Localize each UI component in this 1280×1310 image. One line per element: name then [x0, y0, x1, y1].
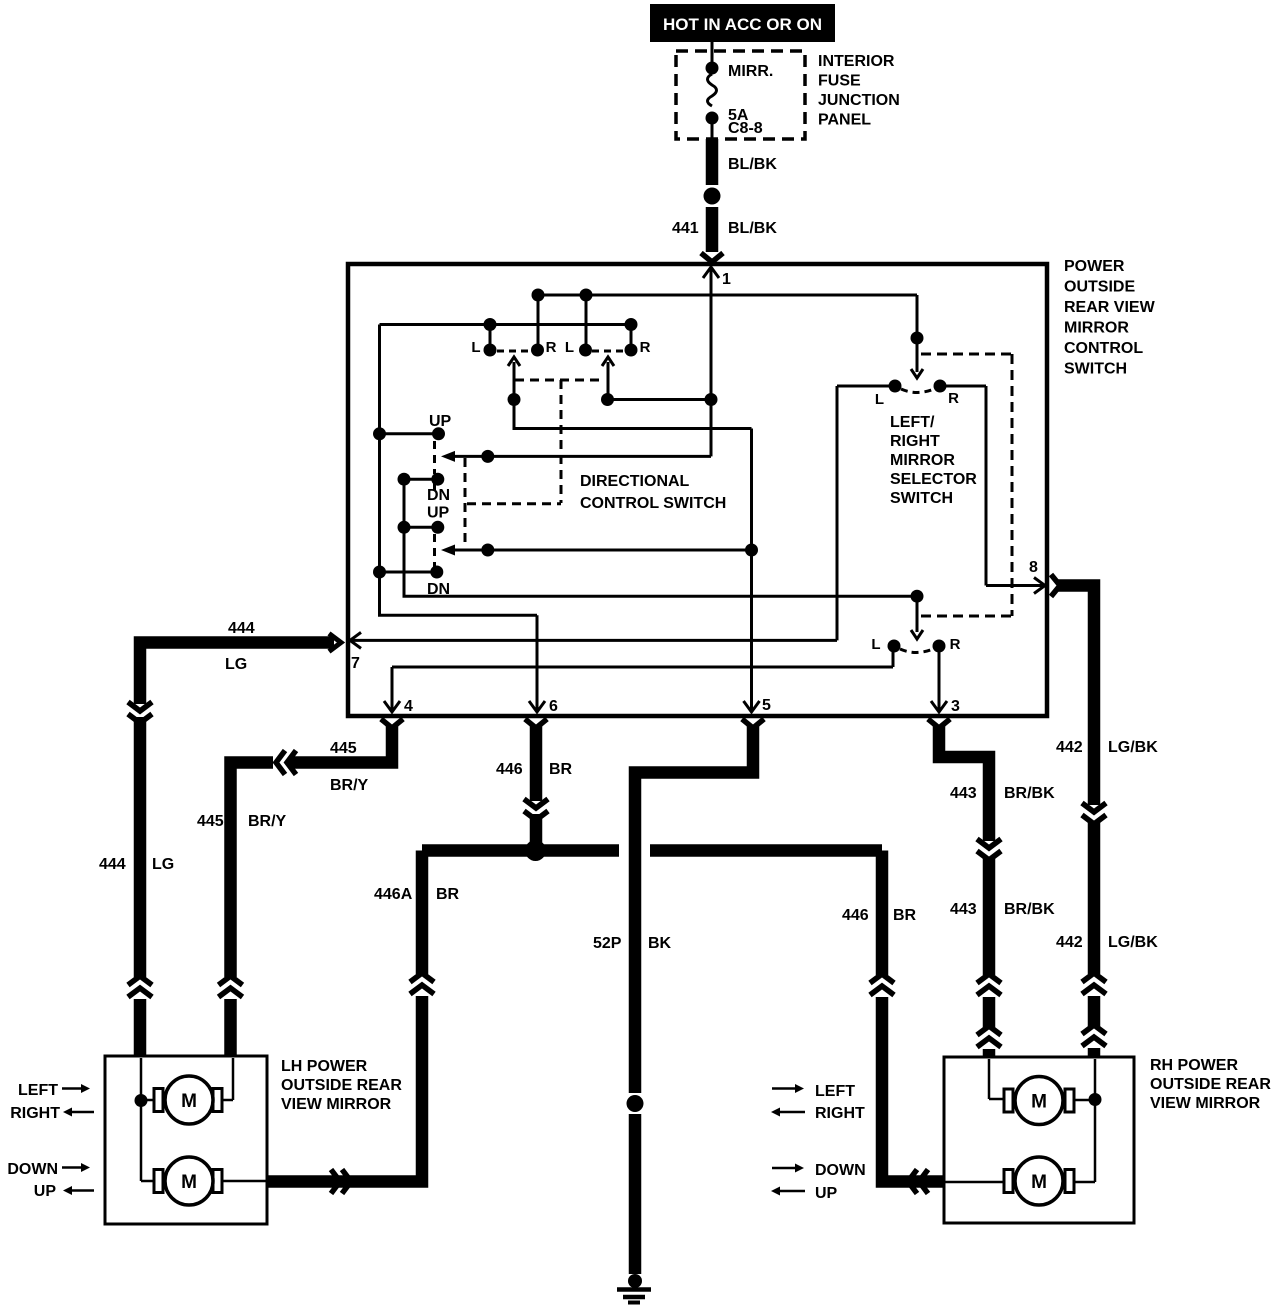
wire selector-bottom L to pin 4: [392, 646, 893, 710]
svg-text:LG: LG: [152, 856, 174, 873]
wire top feed to R1 L2 and selector wiper: [532, 289, 924, 379]
power outside rear view mirror control switch box: [348, 264, 1047, 716]
label BR/BK (upper): [1004, 785, 1055, 802]
svg-text:52P: 52P: [593, 935, 622, 952]
svg-text:BR/Y: BR/Y: [248, 813, 287, 830]
svg-text:RH POWER: RH POWER: [1150, 1057, 1238, 1074]
label R (contact 4): [640, 339, 651, 356]
svg-text:6: 6: [549, 698, 558, 715]
wire RH 443 inner: [989, 1059, 1004, 1099]
svg-text:LG/BK: LG/BK: [1108, 934, 1158, 951]
wire DN2 feed: [380, 566, 444, 579]
directional switch wipers (mechanical): [465, 357, 614, 546]
svg-text:JUNCTION: JUNCTION: [818, 92, 900, 109]
svg-text:MIRROR: MIRROR: [890, 452, 955, 469]
label 6: [549, 698, 558, 715]
svg-text:DOWN: DOWN: [815, 1162, 866, 1179]
svg-text:REAR VIEW: REAR VIEW: [1064, 299, 1156, 316]
wire LH motor2 out: [222, 1180, 266, 1183]
svg-text:444: 444: [228, 620, 255, 637]
node left wiper: [508, 393, 521, 406]
LH power outside rear view mirror box: [105, 1056, 267, 1224]
label BR/Y (vertical): [248, 813, 287, 830]
arrow DOWN (LH): [62, 1163, 90, 1172]
wire UP2 feed: [404, 521, 444, 534]
svg-text:POWER: POWER: [1064, 258, 1125, 275]
label 8: [1029, 559, 1038, 576]
arrow DOWN (RH): [772, 1164, 804, 1173]
svg-text:VIEW MIRROR: VIEW MIRROR: [1150, 1095, 1261, 1112]
svg-text:R: R: [640, 339, 651, 356]
label LEFT/ RIGHT MIRROR SELECTOR SWITCH: [890, 414, 977, 507]
label LEFT (RH): [815, 1083, 855, 1100]
wire 52P BK (thick): [635, 719, 764, 1274]
row2 wiper arrow: [435, 534, 759, 570]
label RH POWER OUTSIDE REAR VIEW MIRROR: [1150, 1057, 1271, 1112]
label DOWN (RH): [815, 1162, 866, 1179]
selector mechanical link (dashed): [921, 354, 1012, 616]
row1 wiper arrow: [435, 441, 712, 490]
svg-text:446: 446: [842, 907, 869, 924]
wire 441 BL/BK (thick): [701, 139, 723, 262]
wire junction bus (thick): [422, 844, 882, 857]
label UP (row2): [427, 505, 450, 522]
svg-text:VIEW MIRROR: VIEW MIRROR: [281, 1096, 392, 1113]
wire left rail (pin 6 net): [373, 325, 537, 616]
svg-text:BL/BK: BL/BK: [728, 220, 777, 237]
svg-text:M: M: [181, 1172, 197, 1193]
label 52P: [593, 935, 622, 952]
pin 1: [703, 267, 719, 399]
arrow UP (RH): [771, 1187, 805, 1196]
wire LH left-right motor feed: [141, 1058, 154, 1181]
svg-text:L: L: [875, 391, 884, 408]
svg-text:8: 8: [1029, 559, 1038, 576]
label BR (pin6): [549, 761, 573, 778]
label DN (row2): [427, 581, 450, 598]
node LH motor junction: [135, 1094, 148, 1107]
label 3: [951, 698, 960, 715]
label 441: [672, 220, 699, 237]
svg-text:DN: DN: [427, 581, 450, 598]
svg-text:OUTSIDE: OUTSIDE: [1064, 279, 1135, 296]
svg-text:445: 445: [330, 740, 357, 757]
svg-text:BR: BR: [436, 886, 460, 903]
svg-text:LG/BK: LG/BK: [1108, 739, 1158, 756]
arrow LEFT (LH): [62, 1084, 90, 1093]
label 444 (vertical): [99, 856, 126, 873]
connector in wire 441: [704, 188, 721, 205]
node bottom selector feed: [911, 590, 924, 603]
label 5: [762, 697, 771, 714]
wire 446 BR pin6 to junction (thick): [524, 719, 548, 850]
svg-text:L: L: [871, 636, 880, 653]
svg-text:UP: UP: [815, 1185, 838, 1202]
label UP (RH): [815, 1185, 838, 1202]
svg-text:LEFT: LEFT: [815, 1083, 855, 1100]
pin 6: [529, 701, 545, 712]
motor M LH2: [154, 1157, 222, 1205]
wire selector R to pin 8: [946, 386, 1044, 586]
svg-text:446: 446: [496, 761, 523, 778]
wire UP1 feed: [380, 427, 446, 440]
wire second feed to L1 R2: [380, 318, 638, 350]
motor M RH2: [1004, 1157, 1074, 1205]
label BL/BK (lower): [728, 220, 777, 237]
svg-text:SELECTOR: SELECTOR: [890, 471, 977, 488]
svg-text:LEFT: LEFT: [18, 1082, 58, 1099]
ground: [617, 1274, 651, 1303]
arrow LEFT (RH): [772, 1084, 804, 1093]
svg-text:BL/BK: BL/BK: [728, 156, 777, 173]
label DN (row1): [427, 487, 450, 504]
pin 8: [1034, 578, 1045, 594]
label BR/BK (lower): [1004, 901, 1055, 918]
arrow RIGHT (RH): [771, 1108, 805, 1117]
label 446 (pin6): [496, 761, 523, 778]
label LG/BK (upper): [1108, 739, 1158, 756]
label 446 (right): [842, 907, 869, 924]
svg-text:OUTSIDE REAR: OUTSIDE REAR: [281, 1077, 402, 1094]
label LG (horizontal): [225, 656, 247, 673]
RH power outside rear view mirror box: [944, 1057, 1134, 1223]
svg-text:BR/BK: BR/BK: [1004, 901, 1055, 918]
arrow UP (LH): [63, 1186, 94, 1195]
interior fuse junction panel (dashed box): [676, 51, 805, 139]
label LG/BK (lower): [1108, 934, 1158, 951]
svg-text:MIRROR: MIRROR: [1064, 320, 1129, 337]
label BR/Y (horizontal): [330, 777, 369, 794]
svg-text:FUSE: FUSE: [818, 73, 861, 90]
label L (selector bottom): [871, 636, 880, 653]
wire pin 5 stub: [750, 429, 753, 711]
wire selector L to pin 7: [350, 386, 889, 640]
motor M LH1: [154, 1076, 222, 1124]
svg-text:R: R: [950, 636, 961, 653]
label RIGHT (LH): [10, 1105, 60, 1122]
motor M RH1: [1004, 1077, 1074, 1125]
label BL/BK (upper): [728, 156, 777, 173]
label UP (LH): [34, 1183, 57, 1200]
svg-text:PANEL: PANEL: [818, 112, 871, 129]
pin 7: [350, 632, 361, 648]
label 446A: [374, 886, 413, 903]
wire LH 445 inner: [222, 1058, 233, 1100]
wire 442 LG/BK (thick): [1051, 575, 1106, 1058]
svg-text:R: R: [948, 390, 959, 407]
svg-text:LH POWER: LH POWER: [281, 1058, 368, 1075]
svg-text:HOT IN ACC OR ON: HOT IN ACC OR ON: [663, 15, 822, 34]
label LH POWER OUTSIDE REAR VIEW MIRROR: [281, 1058, 402, 1113]
svg-text:L: L: [565, 339, 574, 356]
pin 3: [931, 701, 947, 712]
label L (selector top): [875, 391, 884, 408]
wire left wiper to pin5 rail: [514, 400, 752, 429]
wire 446A BR (thick): [268, 851, 434, 1194]
selector switch top contacts: [889, 380, 947, 393]
label BK: [648, 935, 672, 952]
svg-text:BR: BR: [549, 761, 573, 778]
wire pin 6 stub: [536, 615, 539, 710]
node pin1 junction: [705, 393, 718, 406]
svg-text:RIGHT: RIGHT: [10, 1105, 60, 1122]
wire to bottom selector wiper: [911, 596, 923, 639]
svg-text:7: 7: [351, 655, 360, 672]
wire 446 BR to RH mirror (thick): [870, 851, 944, 1194]
label 4: [404, 698, 413, 715]
wire 445 BR/Y (thick): [219, 719, 404, 1056]
wire RH motor2 out: [945, 1181, 1004, 1184]
node right wiper: [601, 393, 614, 406]
svg-text:4: 4: [404, 698, 413, 715]
node RH motor junction: [1089, 1093, 1102, 1106]
wire selector-bottom R to pin 3: [938, 646, 941, 710]
svg-text:BR: BR: [893, 907, 917, 924]
label INTERIOR FUSE JUNCTION PANEL: [818, 53, 900, 129]
svg-text:446A: 446A: [374, 886, 413, 903]
label RIGHT (RH): [815, 1105, 865, 1122]
svg-text:BR/Y: BR/Y: [330, 777, 369, 794]
wire DN1 feed: [404, 473, 444, 486]
svg-text:BK: BK: [648, 935, 672, 952]
svg-text:444: 444: [99, 856, 126, 873]
svg-text:C8-8: C8-8: [728, 120, 763, 137]
wire inner rail to bottom selector wiper: [398, 473, 918, 597]
connector in wire 52P: [627, 1095, 644, 1112]
label 443 (upper): [950, 785, 977, 802]
svg-text:MIRR.: MIRR.: [728, 63, 773, 80]
svg-text:441: 441: [672, 220, 699, 237]
directional control switch contacts L R L R: [484, 344, 638, 357]
label 445 (vertical): [197, 813, 224, 830]
wire pin1 junction down to row1 arrow: [710, 400, 713, 457]
label L (contact 3): [565, 339, 574, 356]
label 1: [722, 271, 731, 288]
svg-text:INTERIOR: INTERIOR: [818, 53, 895, 70]
svg-text:OUTSIDE REAR: OUTSIDE REAR: [1150, 1076, 1271, 1093]
label DOWN (LH): [7, 1161, 58, 1178]
svg-text:1: 1: [722, 271, 731, 288]
wire RH 442 inner: [1074, 1059, 1095, 1182]
label R (selector bottom): [950, 636, 961, 653]
label 442 (upper): [1056, 739, 1083, 756]
svg-text:3: 3: [951, 698, 960, 715]
label BR (446A): [436, 886, 460, 903]
svg-text:M: M: [181, 1091, 197, 1112]
svg-text:442: 442: [1056, 739, 1083, 756]
label BR (right): [893, 907, 917, 924]
pin 4: [384, 701, 400, 712]
label C8-8: [728, 120, 763, 137]
svg-text:LEFT/: LEFT/: [890, 414, 935, 431]
label R (selector top): [948, 390, 959, 407]
svg-text:SWITCH: SWITCH: [890, 490, 953, 507]
pin 5: [744, 701, 760, 712]
svg-text:UP: UP: [429, 413, 452, 430]
selector switch bottom contacts: [888, 640, 946, 653]
svg-text:445: 445: [197, 813, 224, 830]
label UP (row1): [429, 413, 452, 430]
svg-text:RIGHT: RIGHT: [815, 1105, 865, 1122]
label L (contact 1): [471, 339, 480, 356]
svg-text:442: 442: [1056, 934, 1083, 951]
label R (contact 2): [546, 339, 557, 356]
fuse MIRR. 5A: [706, 62, 719, 140]
label DIRECTIONAL CONTROL SWITCH: [580, 473, 726, 512]
svg-text:R: R: [546, 339, 557, 356]
svg-text:CONTROL SWITCH: CONTROL SWITCH: [580, 495, 726, 512]
label 7: [351, 655, 360, 672]
label LEFT (LH): [18, 1082, 58, 1099]
svg-text:DIRECTIONAL: DIRECTIONAL: [580, 473, 690, 490]
label 443 (lower): [950, 901, 977, 918]
wire right wiper to pin1 junction: [608, 398, 712, 401]
svg-text:443: 443: [950, 901, 977, 918]
wire 443 BR/BK (thick): [928, 719, 1001, 1057]
svg-text:BR/BK: BR/BK: [1004, 785, 1055, 802]
svg-text:5: 5: [762, 697, 771, 714]
svg-text:DOWN: DOWN: [7, 1161, 58, 1178]
svg-text:M: M: [1031, 1092, 1047, 1113]
svg-text:RIGHT: RIGHT: [890, 433, 940, 450]
power source banner HOT IN ACC OR ON: [650, 4, 835, 42]
svg-text:L: L: [471, 339, 480, 356]
label 445 (horizontal): [330, 740, 357, 757]
arrow RIGHT (LH): [63, 1108, 94, 1117]
wire into fuse: [711, 42, 714, 66]
label MIRR.: [728, 63, 773, 80]
svg-text:UP: UP: [34, 1183, 57, 1200]
svg-text:CONTROL: CONTROL: [1064, 340, 1143, 357]
node junction 446/446A/446: [525, 840, 546, 861]
svg-text:M: M: [1031, 1172, 1047, 1193]
svg-text:LG: LG: [225, 656, 247, 673]
label 442 (lower): [1056, 934, 1083, 951]
label LG (vertical): [152, 856, 174, 873]
svg-text:DN: DN: [427, 487, 450, 504]
label 444 (horizontal): [228, 620, 255, 637]
svg-text:443: 443: [950, 785, 977, 802]
label POWER OUTSIDE REAR VIEW MIRROR CONTROL SWITCH: [1064, 258, 1156, 378]
svg-text:SWITCH: SWITCH: [1064, 361, 1127, 378]
wire 444 LG (thick): [128, 634, 341, 1057]
svg-text:UP: UP: [427, 505, 450, 522]
label 5A: [728, 107, 749, 124]
